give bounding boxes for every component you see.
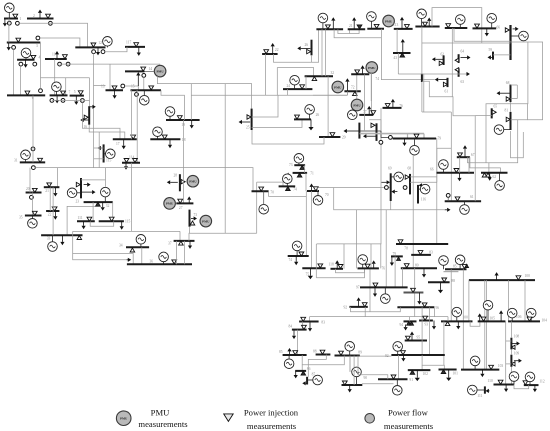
- wire G94b lead: [456, 317, 458, 322]
- bus 94c: [419, 320, 433, 322]
- wire G7 lead: [55, 92, 57, 96]
- power injection measurement bus28 t: [181, 180, 185, 184]
- wire 67-66: [459, 157, 461, 173]
- generator G19: [165, 107, 175, 117]
- wire G66 lead: [442, 169, 444, 173]
- power injection measurement bus95: [406, 336, 411, 340]
- generator G71: [283, 174, 293, 184]
- wire 100-103 a: [484, 280, 486, 370]
- wire 70a top: [257, 182, 283, 186]
- wire 25-r1: [252, 95, 278, 117]
- generator G31: [21, 150, 31, 160]
- wire 94a drop: [409, 317, 411, 322]
- wire 22 rect: [276, 68, 278, 96]
- wire 85a-103: [462, 269, 464, 369]
- generator G23: [67, 188, 77, 198]
- bus 83a: [411, 254, 431, 256]
- load arrow bus110 load: [504, 385, 508, 393]
- load arrow 94a load: [404, 325, 408, 331]
- power injection measurement bus65b: [475, 24, 480, 28]
- wire 67-62 a: [468, 157, 489, 173]
- wire 65c left: [475, 114, 492, 116]
- bus 77R: [376, 123, 378, 141]
- wire 1-2-12: [19, 23, 87, 47]
- arrow bus23 low: [82, 190, 96, 194]
- load arrow bus115b load: [120, 221, 124, 230]
- power flow measurement 69 wl: [385, 186, 389, 190]
- wire 72 left: [346, 91, 348, 95]
- bus 111v: [484, 386, 486, 393]
- wire 100-106 b: [524, 280, 526, 321]
- PMU measurement 72: [332, 81, 344, 93]
- load arrow bus18 load: [168, 139, 172, 148]
- svg-text:26: 26: [316, 113, 320, 117]
- arrow bus69 in: [382, 180, 391, 184]
- svg-text:95: 95: [417, 336, 421, 340]
- wire G106a lead: [511, 318, 513, 322]
- generator G15: [140, 95, 150, 105]
- wire 15-19: [161, 90, 184, 120]
- arrow bus28: [167, 180, 178, 184]
- load arrow bus65b load: [485, 28, 489, 36]
- wire 66r stub: [511, 98, 518, 100]
- wire 89-90 b: [353, 356, 355, 386]
- wire 67-66 b: [468, 157, 470, 173]
- wire 15-17: [130, 90, 132, 139]
- power injection measurement bus12: [91, 43, 96, 47]
- svg-text:32: 32: [331, 71, 335, 75]
- wire 37-36: [184, 241, 186, 264]
- wire 100-94b: [468, 280, 470, 321]
- bus 92: [391, 354, 444, 356]
- wire 11-7: [54, 59, 56, 95]
- power injection measurement bus73a: [300, 165, 305, 169]
- power injection measurement bus110: [498, 380, 503, 384]
- bus 85b: [283, 354, 307, 356]
- wire 92a stub: [364, 307, 366, 317]
- svg-text:104: 104: [542, 318, 548, 322]
- svg-text:88: 88: [452, 279, 456, 283]
- bus Lv: [509, 25, 511, 60]
- arrow bus77R in: [363, 134, 376, 138]
- svg-text:15: 15: [131, 85, 135, 89]
- wire 118 up: [343, 244, 345, 269]
- arrow bus77L in: [344, 129, 360, 133]
- arrow bus87: [302, 381, 307, 385]
- wire 21-33: [52, 187, 54, 235]
- power injection measurement bus94a b: [410, 322, 414, 326]
- arrow bus25: [239, 120, 251, 124]
- bus 103: [461, 369, 499, 371]
- wire G91 lead: [396, 379, 398, 385]
- wire 106-108: [510, 321, 512, 337]
- bus 108: [510, 338, 512, 350]
- generator G103: [470, 356, 480, 366]
- wire G115 lead: [104, 153, 106, 155]
- wire 70b dn b: [310, 191, 312, 268]
- load arrow bus32 load: [101, 202, 105, 211]
- bus 5: [70, 95, 84, 97]
- arrow bus64a: [461, 55, 471, 59]
- svg-text:109: 109: [514, 351, 520, 355]
- bus 100: [469, 279, 535, 281]
- svg-text:PMU: PMU: [202, 219, 210, 223]
- bus 18: [150, 138, 180, 140]
- svg-text:72: 72: [351, 86, 355, 90]
- generator G24: [290, 75, 300, 85]
- wire 67-62 b: [470, 157, 501, 173]
- PMU measurement bus73b: [200, 215, 212, 227]
- power injection measurement bus78: [398, 240, 403, 244]
- wire 30-32b a: [321, 29, 323, 76]
- bus 61: [445, 200, 481, 202]
- power injection measurement bus32: [96, 202, 101, 206]
- power injection measurement bus14b: [355, 70, 360, 74]
- power injection measurement bus74b: [299, 252, 304, 256]
- wire 89-92: [360, 355, 392, 357]
- wire 110-112: [514, 385, 529, 389]
- generator G31c: [367, 12, 377, 22]
- power flow measurement bus11 a: [58, 62, 62, 66]
- power injection measurement bus94a a: [407, 322, 411, 326]
- power injection measurement bus85a t2: [465, 264, 469, 267]
- wire 19 mid drop: [190, 84, 192, 120]
- bus 74b: [288, 255, 309, 257]
- power injection measurement bus94b t: [445, 322, 450, 326]
- bus 102c: [408, 369, 431, 371]
- bus 16: [88, 106, 90, 125]
- generator G79: [410, 145, 420, 155]
- power injection measurement bus90: [342, 381, 347, 385]
- svg-text:70: 70: [325, 193, 329, 197]
- wire G31c lead: [370, 21, 372, 28]
- svg-text:76: 76: [399, 104, 403, 108]
- arrow into bus14: [136, 72, 140, 86]
- wire G70b lead: [317, 191, 319, 196]
- bus 17: [113, 138, 137, 140]
- power injection measurement bus22b: [52, 207, 57, 211]
- wire 66 mesh: [437, 148, 452, 182]
- wire 79-78 left: [412, 155, 414, 268]
- generator G7: [52, 82, 62, 92]
- wire G103 lead: [474, 366, 476, 370]
- svg-text:61: 61: [470, 195, 474, 199]
- bus 22b: [46, 210, 59, 212]
- bus 77L: [358, 123, 360, 139]
- wire G30 lead: [322, 23, 324, 29]
- arrow bus2: [38, 10, 42, 19]
- arrow bus116: [419, 183, 425, 187]
- wire 72-14b: [356, 74, 358, 102]
- load arrow bus26b load: [308, 119, 313, 130]
- bus 106: [508, 320, 540, 322]
- bus 84: [292, 329, 307, 331]
- bus 62: [481, 172, 508, 174]
- wire 37-70 long: [189, 233, 257, 241]
- power flow measurement bus15 dn: [135, 93, 139, 97]
- wire 108 stub: [506, 340, 512, 342]
- bus 70b: [307, 190, 319, 192]
- power injection measurement bus4: [31, 55, 36, 59]
- bus 87: [306, 377, 308, 385]
- wire 79 drop3: [423, 134, 425, 139]
- power injection measurement bus25 t: [247, 115, 251, 119]
- bus 115b: [99, 220, 124, 222]
- wire G18 lead: [157, 137, 159, 140]
- svg-text:73: 73: [194, 213, 198, 217]
- generator G106b: [526, 308, 536, 318]
- generator G85c: [284, 359, 294, 369]
- wire x99 v: [98, 132, 100, 168]
- bus 101: [439, 369, 457, 371]
- svg-text:83: 83: [429, 251, 433, 255]
- bus 80: [401, 267, 437, 269]
- wire 96wire ext: [313, 94, 347, 96]
- svg-text:43: 43: [393, 56, 397, 60]
- svg-text:5: 5: [74, 90, 76, 94]
- svg-text:measurements: measurements: [384, 421, 434, 431]
- arrow bus59v: [488, 55, 494, 59]
- wire 68v r2: [410, 181, 437, 183]
- wire G92a lead: [384, 287, 386, 293]
- power injection measurement bus88b: [320, 350, 325, 354]
- wire 32b dn: [327, 76, 329, 137]
- bus 24: [283, 88, 312, 90]
- bus 92a: [349, 306, 367, 308]
- power injection measurement bus100: [516, 276, 521, 280]
- svg-text:measurements: measurements: [247, 421, 297, 431]
- wire 32 up: [105, 168, 107, 187]
- power flow measurement bus12 a: [92, 50, 96, 54]
- svg-text:33: 33: [47, 237, 51, 241]
- power injection measurement bus83a: [418, 251, 423, 255]
- power injection measurement bus83: [301, 317, 306, 321]
- power injection measurement bus31b t: [357, 25, 362, 29]
- wire 113 dn: [396, 29, 398, 53]
- bus 65c: [491, 108, 493, 118]
- bus 71: [293, 172, 308, 174]
- wire G87 lead: [307, 379, 313, 381]
- wire G15 lead: [143, 90, 145, 95]
- wire G90 lead: [356, 377, 358, 385]
- wire 32b-24: [305, 76, 307, 89]
- load arrow bus86 load: [294, 371, 298, 379]
- power injection measurement bus115b: [109, 217, 114, 221]
- power injection measurement bus113b: [400, 53, 405, 57]
- wire 19-24 mid: [191, 94, 347, 96]
- power injection measurement legend: [224, 414, 234, 422]
- bus 32b: [305, 75, 333, 77]
- bus 116: [417, 185, 419, 204]
- bus 36: [127, 263, 192, 265]
- wire 83-84: [302, 322, 304, 330]
- svg-text:70: 70: [270, 190, 274, 194]
- power injection measurement bus20: [32, 188, 37, 192]
- wire G65b lead: [491, 23, 493, 28]
- power injection measurement bus32b: [312, 77, 317, 81]
- svg-text:108: 108: [514, 334, 520, 338]
- arrow bus85b up: [287, 348, 291, 355]
- svg-text:22: 22: [275, 48, 279, 52]
- wire 61c stub: [447, 197, 449, 201]
- power injection measurement bus77a: [371, 111, 376, 115]
- wire 70b dn: [305, 191, 307, 256]
- svg-text:measurements: measurements: [138, 419, 188, 429]
- power injection measurement bus79b t: [397, 257, 401, 260]
- arrow bus27: [187, 196, 191, 203]
- power injection measurement bus26b: [295, 115, 300, 119]
- svg-text:20: 20: [26, 187, 30, 191]
- power flow measurement bus12 b: [101, 50, 105, 54]
- wire 73b dn: [189, 227, 191, 234]
- generator G32: [101, 187, 111, 197]
- wire G64b lead: [459, 24, 461, 28]
- power injection measurement bus94c: [423, 316, 428, 320]
- wire 81 rect2: [511, 131, 524, 158]
- power injection measurement bus23 t: [76, 182, 80, 186]
- wire G69 lead: [391, 176, 394, 178]
- svg-text:36: 36: [150, 259, 154, 263]
- arrow 113 mid: [401, 39, 405, 53]
- bus 86: [295, 370, 306, 372]
- svg-text:77: 77: [363, 110, 367, 114]
- wire 19-25 top: [157, 76, 251, 108]
- wire 17-114: [136, 90, 138, 163]
- power injection measurement bus76a: [385, 104, 390, 108]
- power injection measurement bus72 t: [353, 92, 358, 96]
- wire 20b rect: [432, 8, 482, 29]
- svg-text:34: 34: [119, 243, 123, 247]
- wire 76b up b: [380, 244, 382, 269]
- wire G62 lead: [499, 173, 501, 180]
- wire 91 left b: [362, 384, 393, 385]
- power injection measurement bus33: [77, 236, 82, 240]
- generator G89: [345, 342, 355, 352]
- power injection measurement bus113 t: [405, 25, 410, 29]
- wire 31 long: [35, 168, 253, 192]
- svg-text:3: 3: [36, 44, 38, 48]
- wire 59-L: [493, 54, 511, 56]
- arrow bus16 top: [90, 105, 96, 109]
- wire 96-92 a: [421, 307, 423, 355]
- svg-text:111: 111: [477, 394, 482, 398]
- wire 31-21: [56, 168, 58, 188]
- power flow measurement bus1 b: [16, 21, 20, 25]
- power flow measurement bus2: [49, 21, 53, 25]
- svg-text:PMU: PMU: [166, 202, 174, 206]
- PMU measurement bus27: [164, 198, 176, 210]
- power injection measurement bus118 t: [338, 265, 343, 269]
- power injection measurement bus3: [16, 38, 21, 42]
- svg-text:97: 97: [356, 286, 360, 290]
- power injection measurement bus30: [326, 25, 331, 29]
- arrow bus14b: [361, 65, 365, 74]
- bus 29: [319, 136, 340, 138]
- bus 88a: [428, 281, 450, 283]
- svg-text:62: 62: [493, 175, 497, 179]
- arrow bus30: [331, 17, 335, 29]
- wire 5-16: [84, 100, 90, 102]
- power injection measurement bus67: [458, 153, 463, 157]
- wire G32 lead: [104, 197, 106, 202]
- svg-text:76: 76: [382, 267, 386, 271]
- wire rect h: [277, 68, 313, 77]
- bus 26b: [294, 118, 311, 120]
- svg-text:115: 115: [125, 220, 130, 224]
- svg-text:7: 7: [69, 90, 71, 94]
- bus 89: [335, 355, 360, 357]
- load arrow bus33 load: [60, 235, 64, 245]
- wire G81 lead: [504, 129, 511, 131]
- wire rect up: [356, 210, 358, 244]
- arrow bus66r: [497, 91, 510, 95]
- power injection measurement bus35: [32, 211, 37, 215]
- load arrow bus117 load: [137, 47, 141, 56]
- power flow measurement bus61 up: [446, 194, 450, 198]
- generator G20b: [417, 9, 427, 19]
- svg-text:112: 112: [539, 379, 544, 383]
- bus 118: [331, 268, 344, 270]
- bus 27: [176, 202, 193, 204]
- wire 61 left: [474, 116, 476, 201]
- power injection measurement bus31: [38, 158, 43, 162]
- wire G31 lead: [25, 160, 27, 163]
- wire 30-32b b: [325, 29, 327, 76]
- bus 94a: [404, 320, 417, 322]
- svg-text:84: 84: [289, 325, 293, 329]
- arrow bus70b: [309, 184, 313, 192]
- wire 33 right: [67, 206, 95, 235]
- wire 70a dn: [256, 182, 258, 233]
- bus 28: [179, 174, 181, 191]
- load arrow bus79 load: [402, 139, 406, 147]
- svg-text:92: 92: [344, 306, 348, 310]
- wire 37 drop: [179, 231, 181, 241]
- bus 32: [84, 201, 113, 203]
- bus 60v: [421, 74, 423, 82]
- wire 76b-92a: [369, 268, 371, 311]
- wire 23 top: [81, 179, 106, 181]
- power injection measurement bus73b t: [190, 221, 195, 225]
- generator G85a: [439, 256, 449, 266]
- bus 117: [125, 46, 145, 48]
- wire pmu dn: [371, 73, 373, 116]
- wire 32-111: [92, 202, 94, 221]
- power injection measurement bus21: [47, 183, 52, 187]
- wire 231 h: [73, 230, 180, 232]
- wire 79-78: [436, 138, 438, 244]
- power injection measurement bus117: [134, 43, 139, 47]
- bus 76b: [358, 267, 379, 269]
- power injection measurement bus24: [300, 85, 305, 89]
- svg-text:65: 65: [494, 105, 498, 109]
- wire 3-6 b: [13, 49, 15, 95]
- svg-text:66: 66: [497, 25, 501, 29]
- load arrow bus97a load: [373, 287, 377, 297]
- arrow 61 in: [445, 208, 451, 212]
- arrow bus115 in: [98, 146, 104, 150]
- arrow bus92a: [357, 297, 361, 307]
- wire G1 lead: [8, 13, 10, 19]
- PMU measurement bus14b: [366, 62, 378, 74]
- bus 113b: [393, 52, 411, 54]
- bus 61a: [447, 78, 449, 87]
- bus 113: [394, 28, 413, 30]
- arrow bus16 in: [80, 118, 89, 122]
- generator G30: [318, 13, 328, 23]
- power injection measurement bus68v t: [405, 175, 409, 179]
- power injection measurement bus74a: [286, 187, 291, 191]
